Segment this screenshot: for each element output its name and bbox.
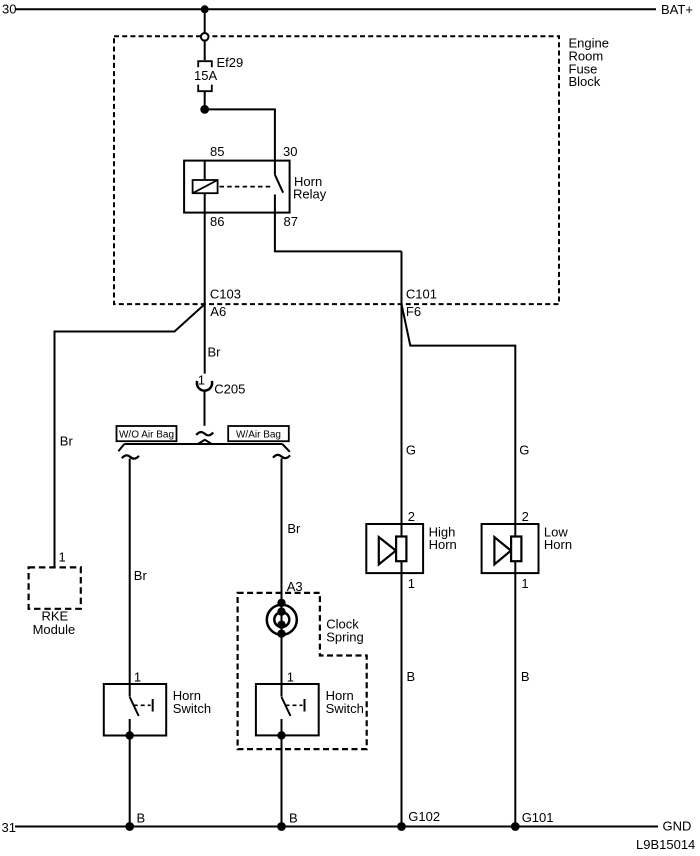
svg-text:A6: A6 — [210, 304, 226, 319]
svg-text:1: 1 — [59, 550, 66, 565]
svg-text:B: B — [521, 669, 530, 684]
svg-text:85: 85 — [210, 144, 224, 159]
svg-text:Spring: Spring — [326, 630, 364, 645]
svg-text:Horn: Horn — [544, 537, 572, 552]
svg-text:87: 87 — [284, 214, 298, 229]
svg-text:2: 2 — [408, 509, 415, 524]
svg-text:G102: G102 — [408, 809, 440, 824]
svg-text:C101: C101 — [406, 287, 437, 302]
svg-text:G: G — [519, 443, 529, 458]
svg-text:GND: GND — [663, 819, 692, 834]
svg-text:C205: C205 — [214, 381, 245, 396]
svg-text:Block: Block — [569, 74, 601, 89]
svg-text:A3: A3 — [287, 579, 303, 594]
svg-text:Switch: Switch — [326, 701, 364, 716]
svg-text:C103: C103 — [210, 287, 241, 302]
svg-text:W/Air Bag: W/Air Bag — [236, 429, 281, 440]
svg-text:BAT+: BAT+ — [661, 2, 693, 17]
svg-text:2: 2 — [522, 509, 529, 524]
svg-text:B: B — [407, 669, 416, 684]
svg-text:1: 1 — [198, 372, 205, 387]
svg-text:1: 1 — [287, 670, 294, 685]
svg-text:86: 86 — [210, 214, 224, 229]
svg-text:L9B15014: L9B15014 — [636, 837, 695, 852]
svg-text:G: G — [406, 443, 416, 458]
svg-text:B: B — [289, 811, 298, 826]
svg-text:Switch: Switch — [173, 701, 211, 716]
svg-text:Br: Br — [287, 521, 301, 536]
svg-text:Br: Br — [208, 345, 222, 360]
svg-text:F6: F6 — [406, 304, 421, 319]
svg-text:Br: Br — [60, 434, 74, 449]
svg-text:B: B — [137, 811, 146, 826]
svg-text:Module: Module — [33, 622, 76, 637]
svg-text:Horn: Horn — [429, 537, 457, 552]
svg-text:1: 1 — [408, 576, 415, 591]
svg-text:G101: G101 — [522, 810, 554, 825]
svg-text:Br: Br — [134, 568, 148, 583]
svg-text:30: 30 — [2, 2, 16, 17]
svg-text:1: 1 — [521, 576, 528, 591]
svg-text:15A: 15A — [194, 68, 217, 83]
svg-text:W/O Air Bag: W/O Air Bag — [119, 429, 174, 440]
svg-text:30: 30 — [283, 144, 297, 159]
svg-text:Relay: Relay — [293, 186, 327, 201]
svg-text:31: 31 — [2, 820, 16, 835]
svg-text:1: 1 — [134, 670, 141, 685]
svg-text:Ef29: Ef29 — [217, 55, 244, 70]
